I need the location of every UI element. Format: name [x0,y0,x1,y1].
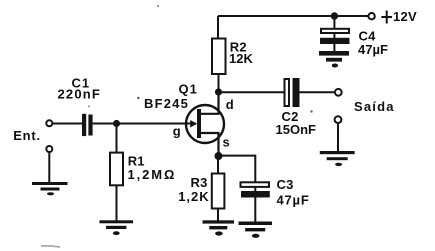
svg-text:s: s [223,135,230,150]
wire source node to C3 [219,156,256,191]
transistor Q1 gate arrow [190,120,197,128]
wire C2 to output terminal [300,91,335,93]
ground (input) [32,182,68,195]
resistor R1 [110,153,123,186]
svg-text:1,2MΩ: 1,2MΩ [128,167,177,182]
resistor R2 [212,39,226,75]
capacitor C3 [241,182,270,197]
scan speck [310,110,312,112]
label +12V [381,11,392,24]
svg-text:1,2K: 1,2K [178,189,209,204]
wire drain node to C2 [219,91,285,93]
ground (R3) [203,220,235,235]
scan speck [137,97,139,99]
svg-text:Saída: Saída [354,99,395,114]
wire top supply rail [218,15,368,17]
wire C4 to ground [333,44,335,52]
node gate [113,120,120,127]
wire rail to R2 [217,16,219,39]
wire C3 to ground [254,198,256,223]
terminal Saida [335,89,342,96]
scan speck [157,5,159,7]
node drain [215,88,222,95]
transistor Q1 drain lead [200,92,219,114]
ground (R1) [100,220,134,235]
ground (C4) [319,51,349,68]
wire supply node to C4 [333,16,335,38]
wire R1 to ground [116,185,118,220]
svg-text:R3: R3 [191,175,208,190]
terminal +12V [368,13,374,19]
transistor Q1 source lead [200,133,219,156]
svg-text:15OnF: 15OnF [276,122,317,137]
svg-text:g: g [173,124,181,139]
svg-text:47µF: 47µF [358,42,388,57]
capacitor C1 [82,114,93,136]
ground (C3) [239,222,273,238]
transistor Q1 circle [186,105,224,143]
wire source to R3 [217,156,219,174]
svg-text:12K: 12K [229,51,253,66]
terminal Ent. input [46,120,52,126]
wire output ground terminal down [337,124,339,152]
wire R2 to drain node [218,74,220,92]
transistor Q1 channel bar [197,109,201,138]
wire gate node to R1 [116,124,118,154]
terminal output ground [335,116,342,123]
svg-text:BF245: BF245 [144,96,189,111]
svg-text:220nF: 220nF [58,87,102,102]
ground (output) [320,151,355,166]
wire R3 to ground [217,209,219,221]
scan smudge [41,246,60,247]
wire input ground terminal down [48,153,50,183]
svg-text:47µF: 47µF [277,192,310,207]
capacitor C2 [285,78,300,107]
resistor R3 [212,174,225,209]
svg-text:C3: C3 [277,177,294,192]
svg-text:12V: 12V [393,9,417,24]
svg-text:d: d [226,97,234,112]
capacitor C4 [320,29,350,44]
node source [215,152,223,160]
wire C1 to gate (gate line) [93,123,196,125]
node supply junction [331,12,338,19]
svg-text:Q1: Q1 [179,82,198,97]
terminal input ground [46,146,52,152]
svg-text:Ent.: Ent. [13,128,41,143]
scan speck [88,105,90,107]
wire input terminal to C1 [53,123,82,125]
